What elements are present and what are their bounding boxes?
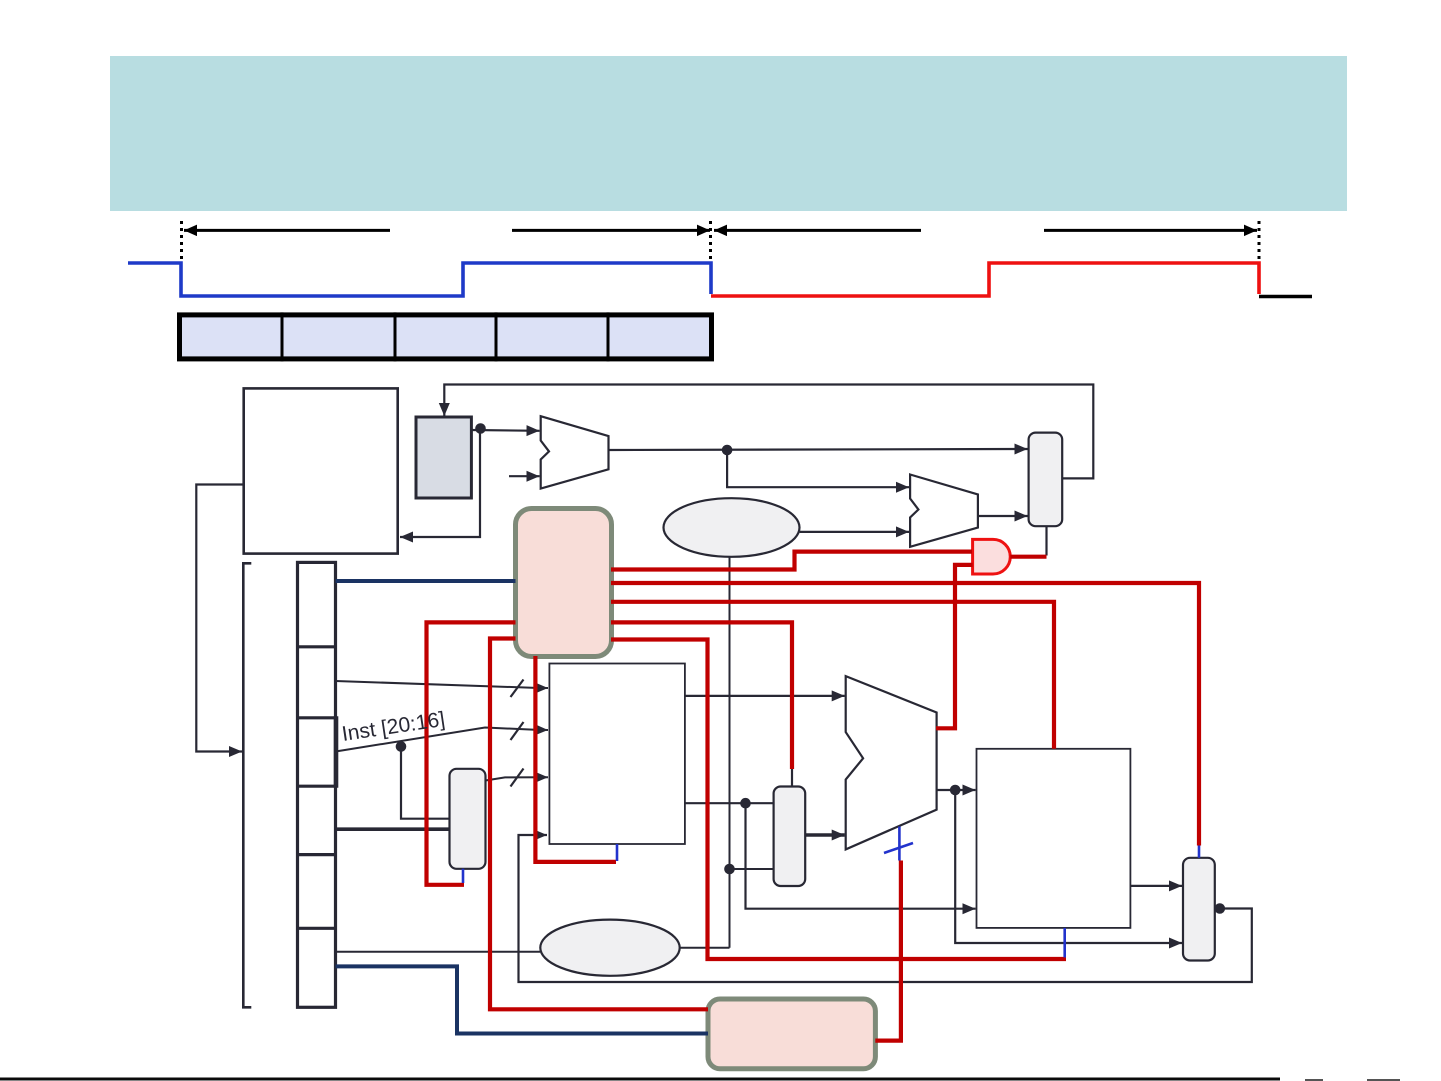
wire IR function to ALU control (navy) bbox=[336, 966, 708, 1033]
blue tick RegWrite bbox=[616, 844, 619, 861]
wire read data 2 branch to memory write data bbox=[746, 803, 976, 909]
wire writeback loop to regfile write data bbox=[519, 835, 1252, 982]
node Inst[20:16] bbox=[396, 741, 407, 752]
node PC out bbox=[475, 423, 486, 434]
wire regfile read data 1 to ALU bbox=[685, 695, 845, 697]
ALU bbox=[846, 676, 937, 849]
wire PCSource mux bottom stub bbox=[1045, 526, 1047, 555]
node read data 2 bbox=[740, 798, 751, 809]
wire IR opcode to controller (navy) bbox=[336, 579, 516, 583]
clock waveform blue part bbox=[128, 263, 711, 296]
blue tick memory-data mux select bbox=[1198, 846, 1201, 858]
footer line bbox=[0, 1078, 1280, 1081]
control wire to B mux top bbox=[611, 622, 792, 769]
ALU control box C2 bbox=[708, 999, 875, 1069]
wire memory data down to IR bracket bbox=[196, 485, 243, 752]
footer text fragment 2 bbox=[1367, 1079, 1400, 1081]
slash read2 bbox=[511, 722, 524, 740]
wire ALU control out to ALU bbox=[875, 861, 901, 1041]
clock cycle arrow segment 3 bbox=[714, 229, 921, 232]
write-register mux bbox=[450, 769, 486, 869]
wire sign-extend out bbox=[680, 947, 730, 949]
wire write-register mux out to regfile bbox=[486, 777, 549, 780]
wire adder A1 out to PCSource mux bbox=[609, 449, 1028, 450]
dotted divider line 2 bbox=[709, 221, 712, 262]
ALU source B mux bbox=[774, 787, 806, 887]
wire B mux top stub bbox=[791, 769, 793, 787]
control wire to write-register mux bottom bbox=[427, 622, 516, 884]
wire PC feedback loop bbox=[444, 385, 1093, 479]
wire ALU out to memory address bbox=[937, 789, 976, 791]
branch adder A2 bbox=[910, 475, 978, 547]
wire adder A2 out to PCSource mux bbox=[978, 515, 1028, 517]
control wire MemWrite to memory bottom bbox=[611, 640, 1066, 960]
wire regfile read data 2 bbox=[685, 802, 774, 804]
svg-text:Inst [20:16]: Inst [20:16] bbox=[340, 708, 446, 746]
PC register bbox=[416, 417, 471, 498]
adder A1 bbox=[541, 416, 609, 488]
memory-data mux bbox=[1183, 858, 1215, 961]
shift-left-2 ellipse bbox=[664, 498, 800, 557]
clock cycle arrow segment 2 bbox=[512, 229, 710, 232]
wire ALU out branch to memory-data mux bbox=[955, 790, 1182, 943]
control wire to AND gate input 1 bbox=[611, 552, 972, 570]
sign-extend ellipse bbox=[540, 920, 679, 976]
IR field column bbox=[298, 562, 337, 1007]
blue tick MemWrite bbox=[1063, 928, 1066, 958]
wire ALU zero to AND gate input 2 bbox=[936, 565, 973, 728]
clock cycle arrow segment 1 bbox=[184, 229, 390, 232]
wire constant 4 input bbox=[509, 475, 540, 477]
footer text fragment 1 bbox=[1305, 1079, 1323, 1081]
wire B mux out to ALU (thick) bbox=[805, 833, 845, 837]
control wire PCWrite to memory-data mux top bbox=[611, 583, 1199, 846]
control wire RegWrite to regfile bottom bbox=[535, 656, 616, 862]
node writeback bbox=[1215, 903, 1226, 914]
memory box M1 bbox=[244, 388, 398, 553]
wire shift2 to sign-extend vertical bbox=[729, 557, 731, 948]
wire IR field to write-register mux (thick) bbox=[336, 827, 450, 831]
title band bbox=[110, 56, 1347, 211]
wire IR field to regfile read1 bbox=[336, 681, 548, 688]
dotted divider line 1 bbox=[180, 221, 183, 262]
wire adder A1 out branch to adder A2 bbox=[727, 450, 909, 487]
node PC+4 bbox=[722, 445, 733, 456]
wire PC out to adder A1 bbox=[471, 429, 539, 432]
register file bbox=[549, 664, 685, 845]
wire Inst[20:16] branch to write-register mux bbox=[401, 747, 450, 819]
clock waveform red part bbox=[711, 263, 1259, 296]
slash write-register bbox=[511, 769, 524, 787]
IR bracket bbox=[243, 563, 251, 1007]
control wire to memory top bbox=[611, 602, 1054, 749]
dotted divider line 3 bbox=[1258, 221, 1261, 262]
blue tick write-register mux select bbox=[462, 869, 465, 883]
wire PC out to memory address bbox=[400, 430, 480, 537]
node ALU out bbox=[950, 785, 961, 796]
clock waveform black tail bbox=[1259, 295, 1312, 299]
wire shift-left-2 out to adder A2 bbox=[800, 531, 909, 533]
AND gate bbox=[973, 539, 1011, 574]
blue slash ALU control bbox=[884, 843, 913, 853]
blue tick ALU control bbox=[898, 827, 901, 861]
wire IR immediate to sign-extend bbox=[336, 951, 541, 953]
controller box C1 bbox=[516, 509, 612, 657]
wire memory read data to memory-data mux bbox=[1130, 885, 1182, 887]
memory box M2 bbox=[977, 749, 1131, 928]
wire IR field Inst[20:16] to regfile read2 bbox=[336, 728, 548, 752]
PCSource mux bbox=[1029, 433, 1063, 527]
wire AND gate out to PCSource mux bbox=[1010, 555, 1046, 559]
wire branch to B mux bbox=[730, 868, 774, 870]
pipeline stage table bbox=[180, 312, 712, 361]
clock cycle arrow segment 4 bbox=[1044, 229, 1257, 232]
slash read1 bbox=[511, 680, 524, 698]
node sign-extend bbox=[724, 864, 735, 875]
control wire to ALU control box bbox=[490, 639, 708, 1010]
